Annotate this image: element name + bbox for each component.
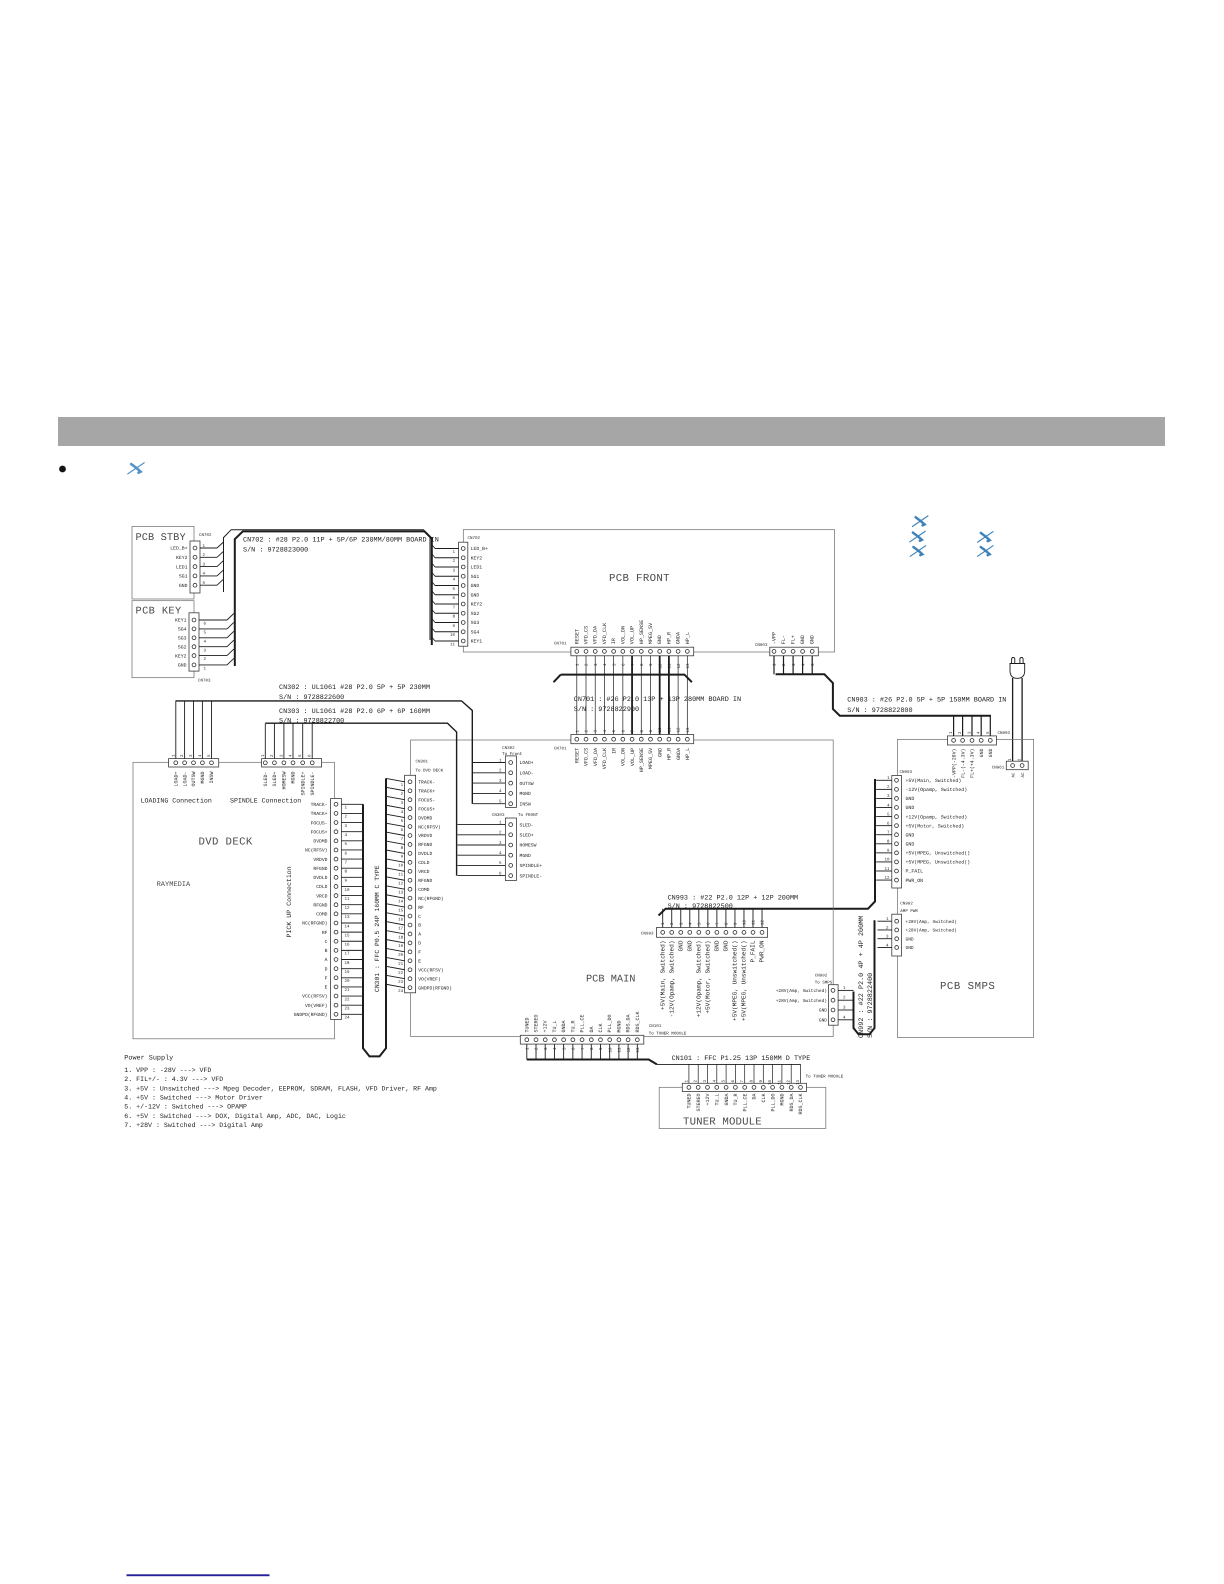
svg-text:KEY2: KEY2: [176, 555, 188, 561]
svg-text:GND: GND: [819, 1008, 827, 1014]
svg-text:7: 7: [581, 1047, 586, 1050]
svg-text:FOCUS-: FOCUS-: [311, 820, 328, 826]
svg-text:GND: GND: [906, 832, 915, 838]
svg-text:2: 2: [204, 657, 207, 662]
svg-text:FOCUS+: FOCUS+: [311, 829, 328, 835]
svg-text:+12V(Opamp, Switched): +12V(Opamp, Switched): [906, 814, 968, 820]
svg-text:4: 4: [452, 578, 455, 583]
svg-text:+5V(MPEG, Unswitched(): +5V(MPEG, Unswitched(): [732, 941, 739, 1021]
svg-text:6: 6: [621, 730, 626, 733]
svg-text:DVDLD: DVDLD: [418, 851, 432, 857]
svg-text:5: 5: [401, 819, 404, 824]
svg-text:10: 10: [658, 727, 663, 733]
svg-text:S/N : 9728822400: S/N : 9728822400: [867, 973, 875, 1038]
svg-text:VRDVD: VRDVD: [418, 833, 432, 839]
svg-text:12: 12: [677, 663, 682, 669]
svg-text:11: 11: [398, 873, 404, 878]
svg-text:6: 6: [452, 596, 455, 601]
svg-text:VFD_CS: VFD_CS: [584, 626, 590, 644]
svg-text:DA: DA: [752, 1094, 758, 1100]
svg-text:11: 11: [667, 727, 672, 733]
svg-text:3. +5V : Unswitched ---> Mpeg: 3. +5V : Unswitched ---> Mpeg Decoder, E…: [124, 1085, 437, 1092]
svg-text:VRDVD: VRDVD: [313, 857, 327, 863]
svg-text:LOAD+: LOAD+: [520, 760, 534, 766]
svg-text:GND: GND: [906, 945, 914, 951]
svg-text:P_FAIL: P_FAIL: [750, 940, 757, 962]
svg-text:15: 15: [345, 933, 351, 938]
svg-text:INSW: INSW: [209, 772, 215, 784]
svg-text:RFGND: RFGND: [418, 842, 432, 848]
svg-text:13: 13: [686, 663, 691, 669]
svg-text:RFGND: RFGND: [313, 902, 327, 908]
svg-text:6. +5V : Switched ---> DOX, Di: 6. +5V : Switched ---> DOX, Digital Amp,…: [124, 1113, 346, 1120]
svg-text:F: F: [325, 975, 328, 981]
svg-text:B: B: [418, 923, 421, 929]
svg-text:VFD_CLK: VFD_CLK: [602, 622, 608, 644]
svg-text:TUNER MODULE: TUNER MODULE: [683, 1117, 762, 1129]
svg-text:9: 9: [649, 663, 654, 666]
svg-text:A: A: [418, 932, 421, 938]
svg-text:KEY1: KEY1: [175, 618, 187, 624]
svg-text:8: 8: [401, 846, 404, 851]
svg-text:GND: GND: [906, 796, 915, 802]
svg-text:22: 22: [398, 971, 404, 976]
svg-text:8: 8: [640, 663, 645, 666]
svg-text:KEY2: KEY2: [471, 602, 483, 608]
svg-text:21: 21: [398, 962, 404, 967]
svg-text:To TUNER MODULE: To TUNER MODULE: [806, 1075, 844, 1080]
svg-text:DVDLD: DVDLD: [313, 875, 327, 881]
svg-text:S/N : 9728822800: S/N : 9728822800: [847, 707, 912, 715]
svg-text:+28V(Amp, Switched): +28V(Amp, Switched): [906, 928, 957, 934]
svg-text:SPINDLE-: SPINDLE-: [310, 772, 316, 796]
svg-text:GNDPD(RFGND): GNDPD(RFGND): [418, 985, 452, 991]
svg-text:NC(RFGND): NC(RFGND): [302, 921, 328, 927]
svg-text:AMP PWR: AMP PWR: [900, 909, 918, 914]
svg-text:LED1: LED1: [176, 564, 188, 570]
svg-text:+5V(MPEG, Unswitched(): +5V(MPEG, Unswitched(): [741, 941, 748, 1021]
svg-text:GND: GND: [471, 592, 480, 598]
svg-text:24: 24: [345, 1016, 351, 1021]
svg-text:5: 5: [562, 1047, 567, 1050]
svg-text:1: 1: [576, 663, 581, 666]
svg-text:PLL_DO: PLL_DO: [607, 1014, 613, 1032]
svg-text:GND: GND: [657, 748, 663, 757]
svg-text:VCC(RFSV): VCC(RFSV): [418, 967, 444, 973]
svg-text:SPINDLE+: SPINDLE+: [300, 772, 306, 796]
svg-text:21: 21: [345, 988, 351, 993]
svg-text:IR: IR: [611, 638, 617, 644]
svg-text:CN701 : #26 P2.0 13P + 13P 280: CN701 : #26 P2.0 13P + 13P 280MM BOARD I…: [574, 696, 741, 704]
svg-text:HOMESW: HOMESW: [520, 843, 537, 849]
svg-text:VFD_CS: VFD_CS: [584, 748, 590, 766]
svg-text:GND: GND: [677, 940, 684, 951]
svg-text:CN993: CN993: [641, 932, 654, 937]
svg-text:FL+: FL+: [791, 635, 797, 644]
svg-text:3: 3: [594, 730, 599, 733]
svg-text:1: 1: [401, 783, 404, 788]
svg-text:GNDA: GNDA: [676, 631, 682, 644]
svg-text:PLL_DO: PLL_DO: [770, 1094, 776, 1112]
svg-text:3: 3: [679, 922, 684, 925]
svg-text:+5V(Main, Switched): +5V(Main, Switched): [659, 941, 666, 1010]
svg-text:GND: GND: [723, 940, 730, 951]
svg-text:11: 11: [345, 897, 351, 902]
svg-text:RAYMEDIA: RAYMEDIA: [157, 881, 191, 889]
svg-text:6: 6: [706, 922, 711, 925]
svg-text:GND: GND: [179, 583, 188, 589]
svg-text:+5V(Motor, Switched): +5V(Motor, Switched): [705, 941, 712, 1014]
svg-text:MPEG_5V: MPEG_5V: [648, 622, 654, 644]
svg-text:LED1: LED1: [471, 565, 483, 571]
svg-text:HP_L: HP_L: [685, 632, 691, 644]
svg-text:1. VPP : -28V ---> VFD: 1. VPP : -28V ---> VFD: [124, 1067, 211, 1074]
svg-text:SG2: SG2: [178, 644, 187, 650]
svg-text:CLK: CLK: [598, 1023, 604, 1032]
svg-text:LOADING Connection: LOADING Connection: [141, 798, 212, 805]
svg-text:SPINDLE Connection: SPINDLE Connection: [230, 798, 301, 805]
svg-text:To FRONT: To FRONT: [518, 813, 539, 818]
svg-text:RFGND: RFGND: [313, 866, 327, 872]
svg-text:DVDMD: DVDMD: [313, 839, 327, 845]
svg-text:3: 3: [345, 824, 348, 829]
svg-text:1: 1: [345, 806, 348, 811]
svg-text:GNDA: GNDA: [561, 1020, 567, 1032]
svg-text:CDLD: CDLD: [316, 884, 327, 890]
svg-text:+5V(Motor, Switched): +5V(Motor, Switched): [906, 823, 965, 829]
svg-text:RESET: RESET: [575, 748, 581, 763]
svg-text:NC(RFGND): NC(RFGND): [418, 896, 444, 902]
svg-text:LOAD-: LOAD-: [520, 771, 534, 777]
svg-text:5: 5: [612, 663, 617, 666]
svg-text:SG1: SG1: [471, 574, 480, 580]
svg-text:TU_R: TU_R: [733, 1094, 739, 1106]
svg-text:6: 6: [572, 1047, 577, 1050]
svg-text:TUNED: TUNED: [524, 1017, 530, 1032]
svg-text:PCB KEY: PCB KEY: [136, 606, 182, 618]
svg-text:12: 12: [627, 1047, 632, 1053]
svg-text:23: 23: [398, 980, 404, 985]
svg-text:+28V(Amp, Switched): +28V(Amp, Switched): [776, 988, 827, 994]
svg-text:6: 6: [622, 663, 627, 666]
svg-text:PICK UP Connection: PICK UP Connection: [286, 866, 293, 937]
svg-text:20: 20: [345, 979, 351, 984]
svg-text:SG1: SG1: [179, 574, 188, 580]
svg-text:-12V(Opamp, Switched): -12V(Opamp, Switched): [906, 787, 968, 793]
svg-text:4. +5V : Switched ---> Motor D: 4. +5V : Switched ---> Motor Driver: [124, 1094, 263, 1101]
svg-text:2: 2: [670, 922, 675, 925]
svg-text:8: 8: [724, 922, 729, 925]
svg-text:VO(VREF): VO(VREF): [305, 1003, 328, 1009]
svg-text:5. +/-12V : Switched ---> OPAM: 5. +/-12V : Switched ---> OPAMP: [124, 1104, 247, 1111]
svg-text:PCB MAIN: PCB MAIN: [586, 974, 635, 986]
svg-text:+12V: +12V: [705, 1094, 711, 1106]
svg-text:18: 18: [345, 961, 351, 966]
svg-text:CN703: CN703: [198, 679, 211, 684]
svg-text:2: 2: [452, 559, 455, 564]
svg-text:2: 2: [401, 792, 404, 797]
svg-text:19: 19: [398, 944, 404, 949]
svg-text:LOAD-: LOAD-: [182, 772, 188, 787]
svg-text:4: 4: [401, 810, 404, 815]
svg-text:DVD DECK: DVD DECK: [199, 837, 253, 849]
svg-text:23: 23: [345, 1006, 351, 1011]
svg-text:RDS_DA: RDS_DA: [626, 1014, 632, 1032]
svg-text:CLK: CLK: [761, 1094, 767, 1103]
svg-text:RESET: RESET: [574, 629, 580, 644]
svg-text:8: 8: [590, 1047, 595, 1050]
svg-text:3: 3: [544, 1047, 549, 1050]
svg-text:VFD_DA: VFD_DA: [593, 625, 599, 644]
svg-text:SPINDLE+: SPINDLE+: [520, 863, 543, 869]
svg-text:CN301 : FFC P0.5 24P 160MM C T: CN301 : FFC P0.5 24P 160MM C TYPE: [374, 865, 381, 992]
svg-text:RF: RF: [322, 930, 328, 936]
svg-text:GND: GND: [810, 635, 816, 644]
svg-text:TUNED: TUNED: [687, 1094, 693, 1109]
svg-text:CN702 : #28 P2.0 11P + 5P/6P 2: CN702 : #28 P2.0 11P + 5P/6P 230MM/80MM …: [243, 537, 439, 545]
svg-text:4: 4: [204, 639, 207, 644]
svg-text:4: 4: [553, 1047, 558, 1050]
svg-text:GND: GND: [906, 936, 914, 942]
svg-text:10: 10: [345, 888, 351, 893]
svg-text:14: 14: [398, 899, 404, 904]
svg-text:COMD: COMD: [316, 912, 327, 918]
svg-text:PLL_CE: PLL_CE: [580, 1014, 586, 1032]
svg-text:20: 20: [398, 953, 404, 958]
svg-text:Power Supply: Power Supply: [124, 1055, 173, 1063]
svg-text:S/N : 9728823000: S/N : 9728823000: [243, 547, 308, 555]
svg-text:FL+(+4.3V): FL+(+4.3V): [970, 748, 976, 777]
svg-text:To SMPS: To SMPS: [815, 980, 833, 985]
svg-text:2: 2: [585, 663, 590, 666]
svg-text:E: E: [325, 985, 328, 991]
svg-text:CN302: CN302: [502, 746, 515, 751]
svg-text:MGND: MGND: [780, 1094, 786, 1106]
svg-text:9: 9: [649, 730, 654, 733]
svg-text:CN961: CN961: [992, 765, 1005, 770]
svg-text:TRACK+: TRACK+: [418, 788, 435, 794]
svg-text:VOL_UP: VOL_UP: [630, 748, 636, 766]
svg-text:-VPP(-28V): -VPP(-28V): [951, 748, 957, 777]
svg-text:GND: GND: [819, 1018, 827, 1024]
svg-text:15: 15: [398, 908, 404, 913]
svg-text:+5V(MPEG, Unswitched(): +5V(MPEG, Unswitched(): [906, 860, 971, 866]
svg-text:CN992: CN992: [815, 974, 828, 979]
svg-text:PCB STBY: PCB STBY: [136, 532, 186, 544]
svg-text:SLED-: SLED-: [520, 822, 534, 828]
svg-text:1: 1: [452, 550, 455, 555]
svg-text:DVDMD: DVDMD: [418, 815, 432, 821]
svg-text:7. +28V : Switched ---> Digita: 7. +28V : Switched ---> Digital Amp: [124, 1122, 263, 1129]
svg-text:To TUNER MODULE: To TUNER MODULE: [649, 1032, 687, 1037]
svg-text:CN903: CN903: [755, 643, 768, 648]
svg-text:A: A: [325, 957, 328, 963]
svg-text:4: 4: [688, 922, 693, 925]
svg-text:FOCUS+: FOCUS+: [418, 806, 435, 812]
svg-text:VRCD: VRCD: [316, 893, 327, 899]
svg-text:TRACK-: TRACK-: [418, 780, 435, 786]
svg-text:HP_R: HP_R: [667, 748, 673, 760]
svg-text:12: 12: [398, 882, 404, 887]
svg-text:TRACK+: TRACK+: [311, 811, 328, 817]
svg-text:GNDA: GNDA: [724, 1094, 730, 1106]
svg-text:7: 7: [452, 605, 455, 610]
svg-text:D: D: [418, 941, 421, 947]
svg-text:TRACK-: TRACK-: [311, 802, 328, 808]
svg-text:12: 12: [677, 727, 682, 733]
svg-text:1: 1: [575, 730, 580, 733]
svg-text:CN101: CN101: [649, 1024, 662, 1029]
svg-text:-12V(Opamp, Switched): -12V(Opamp, Switched): [668, 941, 675, 1018]
svg-text:PCB SMPS: PCB SMPS: [940, 981, 995, 993]
svg-text:S/N : 9728822700: S/N : 9728822700: [279, 718, 344, 726]
svg-text:PWR_ON: PWR_ON: [759, 940, 766, 962]
svg-text:B: B: [325, 948, 328, 954]
svg-text:FOCUS-: FOCUS-: [418, 797, 435, 803]
svg-text:GND: GND: [714, 940, 721, 951]
svg-text:CN702: CN702: [199, 533, 212, 538]
svg-text:AC: AC: [1011, 772, 1016, 778]
svg-text:KEY2: KEY2: [175, 653, 187, 659]
svg-text:MGND: MGND: [520, 853, 531, 859]
svg-text:AC: AC: [1021, 772, 1026, 778]
svg-text:RDS_DA: RDS_DA: [789, 1094, 795, 1112]
svg-text:E: E: [418, 959, 421, 965]
svg-text:8: 8: [452, 615, 455, 620]
svg-text:CN993 : #22 P2.0 12P + 12P 200: CN993 : #22 P2.0 12P + 12P 200MM: [668, 894, 799, 902]
svg-text:12: 12: [761, 919, 766, 925]
svg-text:P_FAIL: P_FAIL: [906, 869, 924, 875]
svg-text:10: 10: [608, 1047, 613, 1053]
svg-text:SG2: SG2: [471, 611, 480, 617]
svg-text:CN702: CN702: [468, 536, 481, 541]
svg-text:+28V(Amp, Switched): +28V(Amp, Switched): [906, 919, 957, 925]
svg-text:SLED+: SLED+: [520, 833, 534, 839]
svg-text:11: 11: [777, 1080, 782, 1086]
svg-text:11: 11: [752, 919, 757, 925]
svg-text:RFGND: RFGND: [418, 878, 432, 884]
svg-text:11: 11: [618, 1047, 623, 1053]
svg-text:HP_R: HP_R: [666, 632, 672, 644]
svg-text:PCB FRONT: PCB FRONT: [609, 573, 670, 585]
svg-text:VOL_UP: VOL_UP: [630, 626, 636, 644]
svg-text:SG3: SG3: [471, 620, 480, 626]
svg-text:11: 11: [450, 642, 456, 647]
svg-text:NC(RFSV): NC(RFSV): [418, 824, 441, 830]
svg-text:CN993: CN993: [900, 770, 913, 775]
svg-text:+28V(Amp, Switched): +28V(Amp, Switched): [776, 998, 827, 1004]
svg-text:MPEG_5V: MPEG_5V: [648, 747, 654, 769]
svg-text:5: 5: [612, 730, 617, 733]
svg-text:FL-(-4.3V): FL-(-4.3V): [960, 748, 966, 777]
svg-text:GND: GND: [800, 635, 806, 644]
svg-text:1: 1: [661, 922, 666, 925]
svg-text:CN992: CN992: [900, 902, 913, 907]
svg-text:14: 14: [345, 924, 351, 929]
svg-text:VRCD: VRCD: [418, 869, 429, 875]
svg-text:GND: GND: [906, 841, 915, 847]
svg-text:RDS_CLK: RDS_CLK: [635, 1011, 641, 1032]
svg-text:CN903: CN903: [998, 731, 1011, 736]
svg-text:+12V(Opamp, Switched): +12V(Opamp, Switched): [696, 941, 703, 1018]
svg-text:LED_B+: LED_B+: [170, 546, 187, 552]
svg-text:HOMESW: HOMESW: [282, 772, 288, 790]
svg-text:13: 13: [345, 915, 351, 920]
svg-text:2: 2: [345, 815, 348, 820]
svg-text:+12V: +12V: [543, 1020, 549, 1032]
svg-text:GND: GND: [657, 635, 663, 644]
svg-text:16: 16: [398, 917, 404, 922]
svg-text:12: 12: [884, 876, 890, 881]
svg-text:FL-: FL-: [781, 635, 787, 644]
svg-text:STEREO: STEREO: [696, 1094, 702, 1112]
svg-text:6: 6: [345, 851, 348, 856]
svg-text:INSW: INSW: [520, 801, 531, 807]
svg-text:4: 4: [345, 833, 348, 838]
svg-text:VFD_DA: VFD_DA: [593, 747, 599, 766]
svg-text:SG3: SG3: [178, 636, 187, 642]
svg-text:CN303: CN303: [492, 813, 505, 818]
svg-text:2: 2: [535, 1047, 540, 1050]
svg-text:VCC(RFSV): VCC(RFSV): [302, 994, 328, 1000]
svg-text:5: 5: [452, 587, 455, 592]
svg-text:OUTSW: OUTSW: [520, 781, 534, 787]
svg-text:GND: GND: [178, 663, 187, 669]
svg-text:10: 10: [450, 633, 456, 638]
svg-text:+5V(MPEG, Unswitched(): +5V(MPEG, Unswitched(): [906, 851, 971, 857]
svg-text:STEREO: STEREO: [534, 1014, 540, 1032]
svg-text:10: 10: [398, 864, 404, 869]
svg-text:4: 4: [603, 730, 608, 733]
svg-text:+5V(Main, Switched): +5V(Main, Switched): [906, 778, 962, 784]
svg-text:17: 17: [345, 952, 351, 957]
svg-text:9: 9: [733, 922, 738, 925]
svg-text:17: 17: [398, 926, 404, 931]
svg-text:S/N : 9728822600: S/N : 9728822600: [279, 694, 344, 702]
svg-text:2: 2: [585, 730, 590, 733]
svg-text:C: C: [418, 914, 421, 920]
svg-text:C: C: [325, 939, 328, 945]
svg-text:D: D: [325, 966, 328, 972]
svg-text:LOAD+: LOAD+: [174, 772, 180, 787]
svg-text:KEY1: KEY1: [471, 639, 483, 645]
svg-text:8: 8: [640, 730, 645, 733]
svg-text:CN903 : #26 P2.0 5P + 5P 150MM: CN903 : #26 P2.0 5P + 5P 150MM BOARD IN: [847, 697, 1006, 705]
svg-text:9: 9: [401, 855, 404, 860]
svg-text:CN101 : FFC P1.25 13P 150MM D: CN101 : FFC P1.25 13P 150MM D TYPE: [672, 1055, 811, 1063]
svg-text:3: 3: [594, 663, 599, 666]
svg-text:6: 6: [204, 622, 207, 627]
svg-text:5: 5: [204, 631, 207, 636]
svg-text:LED_B+: LED_B+: [471, 546, 488, 552]
svg-text:CN303 : UL1061 #28 P2.0 6P + 6: CN303 : UL1061 #28 P2.0 6P + 6P 160MM: [279, 708, 430, 716]
svg-text:1: 1: [204, 667, 207, 672]
svg-text:MGND: MGND: [520, 791, 531, 797]
svg-text:TU_L: TU_L: [552, 1020, 558, 1032]
svg-text:RDS_CLK: RDS_CLK: [798, 1094, 804, 1115]
svg-text:SLED-: SLED-: [263, 772, 269, 787]
svg-text:GND: GND: [988, 748, 994, 757]
svg-text:CN701: CN701: [554, 642, 567, 647]
svg-text:PLL_CE: PLL_CE: [742, 1094, 748, 1112]
svg-text:3: 3: [401, 801, 404, 806]
svg-text:16: 16: [345, 943, 351, 948]
svg-text:GNDPD(RFGND): GNDPD(RFGND): [294, 1012, 328, 1018]
svg-text:DA: DA: [589, 1026, 595, 1032]
svg-text:OUTSW: OUTSW: [191, 772, 197, 787]
svg-text:CN701: CN701: [554, 747, 567, 752]
svg-text:RF: RF: [418, 905, 424, 911]
